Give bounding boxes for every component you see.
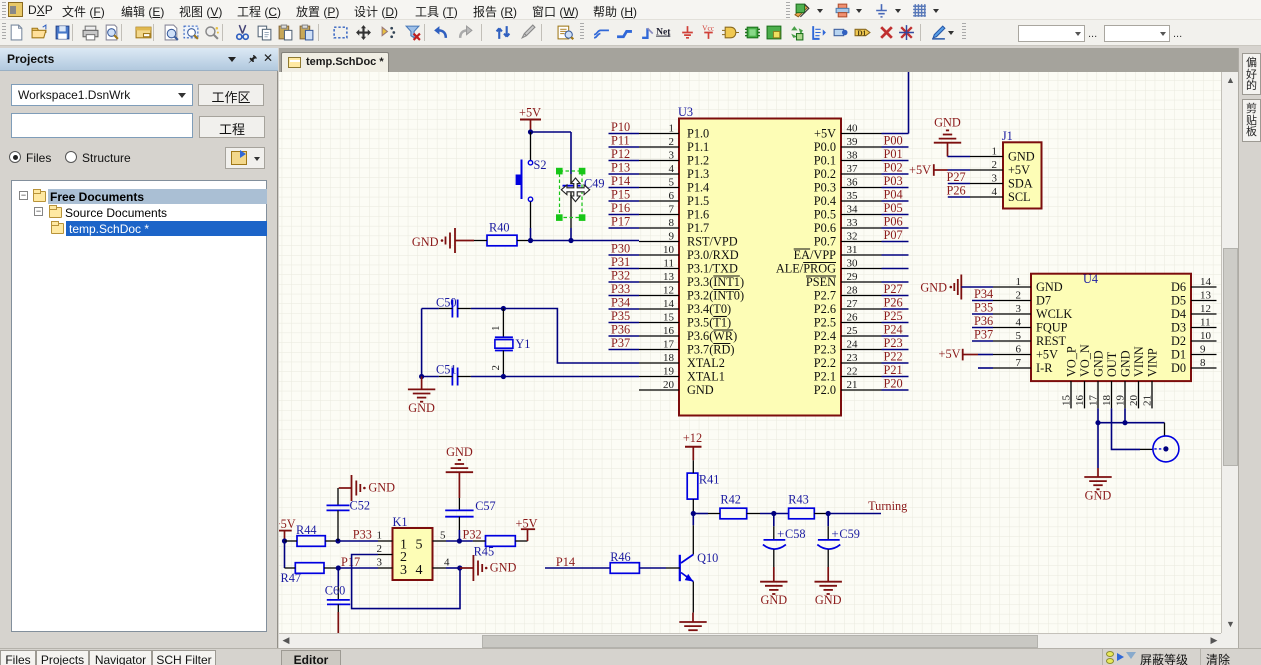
svg-text:P33: P33: [611, 282, 630, 296]
svg-text:2: 2: [669, 136, 675, 148]
resistor R41: [687, 460, 719, 513]
switch S2: [516, 132, 547, 228]
resistor R45: [473, 536, 528, 559]
svg-text:GND: GND: [1118, 350, 1132, 377]
wire: [882, 335, 909, 337]
IC U3 body: [678, 105, 841, 416]
svg-text:4: 4: [669, 163, 675, 175]
svg-text:Vcc: Vcc: [702, 24, 715, 32]
U4 pin 11 (D3): [1171, 317, 1217, 335]
svg-text:XTAL2: XTAL2: [687, 356, 725, 370]
svg-text:P3.3(INT1): P3.3(INT1): [687, 275, 744, 289]
junction: [501, 306, 506, 311]
svg-text:26: 26: [847, 312, 859, 324]
svg-text:P0.5: P0.5: [814, 208, 836, 222]
wire Turning net: [828, 513, 881, 515]
U4 pin 9 (D1): [1171, 344, 1217, 362]
wire K1 pin2 loop to pin4: [352, 555, 460, 609]
U3 pin 5 (left row 5): [639, 177, 709, 195]
wire U4 pin1: [961, 286, 993, 288]
svg-text:38: 38: [847, 150, 859, 162]
IC U4 body: [1031, 272, 1191, 381]
wire: [882, 295, 909, 297]
resistor R40: [474, 221, 531, 246]
ground GND (Q10 emitter): [679, 613, 706, 631]
power port +5V (U4 pin6): [939, 347, 978, 361]
wire: [882, 362, 909, 364]
svg-text:C50: C50: [436, 296, 457, 310]
svg-text:U4: U4: [1083, 272, 1098, 286]
svg-text:SDA: SDA: [1008, 177, 1033, 191]
svg-text:D7: D7: [1036, 294, 1051, 308]
ground GND (C59): [815, 567, 842, 607]
svg-text:P2.1: P2.1: [814, 370, 836, 384]
wire: [882, 389, 909, 391]
svg-text:P05: P05: [884, 201, 903, 215]
K1 pin 2: [377, 543, 393, 555]
svg-text:GND: GND: [446, 445, 473, 459]
U3 pin 20 (left row 20): [639, 379, 714, 397]
svg-text:3: 3: [669, 150, 675, 162]
U3 pin 29 (right): [806, 271, 882, 289]
svg-text:P2.0: P2.0: [814, 383, 836, 397]
svg-text:34: 34: [847, 204, 859, 216]
svg-text:5: 5: [669, 177, 675, 189]
svg-text:FQUP: FQUP: [1036, 321, 1068, 335]
svg-text:Turning: Turning: [868, 499, 907, 513]
svg-text:7: 7: [669, 204, 675, 216]
svg-text:EA/VPP: EA/VPP: [794, 248, 837, 262]
U3 pin 6 (left row 6): [639, 190, 709, 208]
wire: [882, 133, 909, 135]
svg-text:2: 2: [1016, 290, 1022, 302]
svg-text:P1.3: P1.3: [687, 167, 709, 181]
K1 pin 4: [433, 557, 451, 569]
svg-text:8: 8: [669, 217, 675, 229]
svg-text:P1.5: P1.5: [687, 194, 709, 208]
wire: [972, 313, 993, 315]
svg-text:15: 15: [663, 312, 675, 324]
svg-text:10: 10: [663, 244, 675, 256]
svg-text:P0.3: P0.3: [814, 181, 836, 195]
svg-text:P2.6: P2.6: [814, 302, 836, 316]
U3 pin 2 (left row 2): [639, 136, 709, 154]
svg-text:GND: GND: [368, 481, 395, 495]
svg-text:PSEN: PSEN: [806, 275, 836, 289]
svg-text:+5V: +5V: [1008, 163, 1030, 177]
svg-text:GND: GND: [1085, 489, 1112, 503]
U3 pin 24 (right): [814, 339, 882, 357]
U4 pin 16 (VO_N): [1074, 344, 1092, 408]
svg-text:20: 20: [663, 379, 675, 391]
svg-text:R41: R41: [699, 473, 720, 487]
svg-text:12: 12: [1200, 303, 1211, 315]
svg-text:6: 6: [1016, 344, 1022, 356]
svg-text:12: 12: [663, 285, 674, 297]
svg-text:P2.3: P2.3: [814, 343, 836, 357]
U4 pin 1 (GND): [993, 276, 1063, 294]
svg-text:39: 39: [847, 136, 859, 148]
U3 pin 39 (right): [814, 136, 882, 154]
svg-text:P14: P14: [556, 555, 575, 569]
svg-text:P34: P34: [611, 296, 630, 310]
svg-text:VINP: VINP: [1145, 348, 1159, 377]
U3 pin 34 (right): [814, 204, 882, 222]
U3 pin 19 (left row 19): [639, 366, 725, 384]
svg-text:28: 28: [847, 285, 859, 297]
svg-text:REST: REST: [1036, 334, 1067, 348]
svg-text:P0.1: P0.1: [814, 154, 836, 168]
svg-text:WCLK: WCLK: [1036, 307, 1072, 321]
resistor R44: [285, 523, 339, 546]
svg-text:P1.0: P1.0: [687, 127, 709, 141]
U4 pin 8 (D0): [1171, 357, 1217, 375]
ground GND (left of R40, bar style): [412, 228, 474, 253]
U4 pin 17 (GND): [1088, 350, 1106, 408]
wire J1 pin3: [948, 183, 970, 185]
wire U4 pin6: [978, 354, 993, 356]
U3 pin 36 (right): [814, 177, 882, 195]
svg-text:GND: GND: [1036, 280, 1063, 294]
svg-text:P1.4: P1.4: [687, 181, 709, 195]
U4 pin 14 (D6): [1171, 276, 1217, 294]
svg-text:VINN: VINN: [1132, 346, 1146, 377]
svg-text:18: 18: [663, 352, 675, 364]
wire net P13: [609, 173, 640, 175]
connector J1 body: [1002, 129, 1042, 209]
ground GND (crystal): [408, 377, 435, 415]
ground GND (K1 pin4, bar style): [460, 555, 517, 581]
wire net P10: [609, 133, 640, 135]
U3 pin 17 (left row 17): [639, 339, 734, 357]
U3 pin 35 (right): [814, 190, 882, 208]
wire: [882, 322, 909, 324]
svg-text:15: 15: [1061, 395, 1073, 407]
wire C49 to RST net: [570, 228, 572, 241]
svg-text:P35: P35: [611, 309, 630, 323]
svg-text:37: 37: [847, 163, 859, 175]
capacitor C59 (polarized): [817, 514, 860, 568]
svg-text:C59: C59: [839, 527, 860, 541]
svg-text:P35: P35: [974, 301, 993, 315]
U3 pin 3 (left row 3): [639, 150, 709, 168]
svg-text:P3.0/RXD: P3.0/RXD: [687, 248, 739, 262]
svg-text:22: 22: [847, 366, 858, 378]
svg-text:P20: P20: [884, 377, 903, 391]
svg-text:P02: P02: [884, 161, 903, 175]
crystal Y1: [490, 309, 531, 377]
svg-text:9: 9: [669, 231, 675, 243]
svg-text:P11: P11: [611, 134, 630, 148]
svg-text:GND: GND: [1008, 150, 1035, 164]
wire net P16: [609, 214, 640, 216]
wire: [882, 214, 909, 216]
svg-text:11: 11: [1200, 317, 1211, 329]
wire: [882, 146, 909, 148]
U3 pin 27 (right): [814, 298, 882, 316]
svg-text:P37: P37: [611, 336, 630, 350]
svg-text:P0.7: P0.7: [814, 235, 836, 249]
svg-text:P3.6(WR): P3.6(WR): [687, 329, 737, 343]
wire: [882, 254, 909, 256]
wire net P11: [609, 146, 640, 148]
svg-text:GND: GND: [934, 116, 961, 130]
svg-text:P2.5: P2.5: [814, 316, 836, 330]
wire net P34: [609, 308, 640, 310]
ground GND (above J1, flipped): [934, 116, 961, 157]
svg-text:OUT: OUT: [1105, 351, 1119, 377]
junction: [528, 238, 533, 243]
resistor R43: [788, 493, 828, 519]
J1 pin 1 (GND): [970, 146, 1035, 164]
U3 pin 9 (left row 9): [639, 231, 738, 249]
wire R42 row: [693, 513, 708, 515]
wire J1 pin1: [948, 156, 971, 158]
svg-text:C57: C57: [475, 499, 496, 513]
svg-text:9: 9: [1200, 344, 1206, 356]
svg-text:P07: P07: [884, 228, 903, 242]
U3 pin 8 (left row 8): [639, 217, 709, 235]
U3 pin 13 (left row 12): [639, 271, 744, 289]
svg-text:GND: GND: [412, 235, 439, 249]
U4 pin 20 (VINN): [1128, 346, 1146, 408]
wire: [882, 227, 909, 229]
wire net P32: [609, 281, 640, 283]
wire net P15: [609, 200, 640, 202]
svg-text:Q10: Q10: [697, 551, 718, 565]
svg-text:P27: P27: [947, 170, 966, 184]
svg-text:P2.7: P2.7: [814, 289, 836, 303]
U4 pin 15 (VO_P): [1061, 346, 1079, 408]
svg-text:D4: D4: [1171, 307, 1186, 321]
svg-text:P1.1: P1.1: [687, 140, 709, 154]
svg-text:33: 33: [847, 217, 859, 229]
svg-text:D2: D2: [1171, 334, 1186, 348]
U3 pin 7 (left row 7): [639, 204, 709, 222]
svg-text:21: 21: [847, 379, 858, 391]
wire: [882, 241, 909, 243]
K1 pin 1: [377, 530, 393, 542]
svg-text:GND: GND: [490, 561, 517, 575]
svg-text:VO_N: VO_N: [1078, 344, 1092, 377]
svg-text:P0.4: P0.4: [814, 194, 836, 208]
svg-text:6: 6: [669, 190, 675, 202]
svg-text:GND: GND: [687, 383, 714, 397]
svg-text:18: 18: [1101, 395, 1113, 407]
svg-text:1: 1: [1016, 276, 1022, 288]
svg-text:U3: U3: [678, 105, 693, 119]
wire: [882, 268, 909, 270]
capacitor C57: [445, 498, 496, 530]
U3 pin 22 (right): [814, 366, 882, 384]
svg-text:25: 25: [847, 325, 859, 337]
svg-text:P25: P25: [884, 309, 903, 323]
svg-text:P26: P26: [884, 296, 903, 310]
junction: [419, 374, 424, 379]
wire collector node: [692, 514, 694, 526]
svg-text:1: 1: [669, 123, 675, 135]
svg-text:P37: P37: [974, 328, 993, 342]
svg-text:P22: P22: [884, 350, 903, 364]
svg-text:20: 20: [1128, 395, 1140, 407]
capacitor C51: [436, 363, 471, 386]
C49 selection handles: [556, 168, 585, 221]
svg-text:D6: D6: [1171, 280, 1186, 294]
wire net P33: [609, 295, 640, 297]
svg-text:32: 32: [847, 231, 858, 243]
svg-text:19: 19: [663, 366, 675, 378]
svg-text:5: 5: [416, 537, 423, 552]
U3 pin 21 (right): [814, 379, 882, 397]
wire J1 pin4: [948, 196, 970, 198]
svg-text:35: 35: [847, 190, 859, 202]
svg-text:P04: P04: [884, 188, 903, 202]
U3 pin 11 (left row 11): [639, 258, 738, 276]
junction: [335, 538, 340, 543]
svg-text:P23: P23: [884, 336, 903, 350]
svg-text:R40: R40: [489, 221, 510, 235]
wire +5V node to C49 branch: [531, 131, 572, 133]
ground GND (C58): [760, 567, 787, 607]
wire C51/Y1 to XTAL1: [422, 376, 439, 378]
wire net P30: [609, 254, 640, 256]
svg-text:P1.6: P1.6: [687, 208, 709, 222]
svg-text:GND: GND: [408, 401, 435, 415]
junction: [1095, 420, 1100, 425]
svg-text:P33: P33: [353, 528, 372, 542]
U3 pin 26 (right): [814, 312, 882, 330]
U4 pin 12 (D4): [1171, 303, 1217, 321]
svg-text:P1.2: P1.2: [687, 154, 709, 168]
svg-text:3: 3: [992, 173, 998, 185]
resistor R42: [708, 493, 760, 519]
svg-text:14: 14: [663, 298, 675, 310]
junction: [826, 511, 831, 516]
svg-text:P14: P14: [611, 174, 630, 188]
J1 pin 3 (SDA): [970, 173, 1033, 191]
svg-text:P15: P15: [611, 188, 630, 202]
svg-text:36: 36: [847, 177, 859, 189]
svg-text:P10: P10: [611, 120, 630, 134]
svg-text:3: 3: [400, 563, 407, 578]
power port +5V (R45): [516, 516, 538, 541]
U3 pin 28 (right): [814, 285, 882, 303]
power port +5V (left edge): [274, 517, 296, 541]
svg-text:2: 2: [992, 159, 998, 171]
svg-text:17: 17: [1088, 395, 1100, 407]
transistor Q10: [666, 525, 718, 612]
U4 pin 7 (I-R): [993, 357, 1053, 375]
U3 pin 10 (left row 10): [639, 244, 739, 262]
svg-text:SCL: SCL: [1008, 190, 1031, 204]
capacitor C50: [436, 296, 471, 318]
wire: [882, 376, 909, 378]
wire net P31: [609, 268, 640, 270]
svg-text:1: 1: [490, 326, 502, 332]
svg-text:GND: GND: [815, 593, 842, 607]
J1 pin 4 (SCL): [970, 186, 1031, 204]
svg-text:P27: P27: [884, 282, 903, 296]
svg-text:C60: C60: [325, 584, 346, 598]
U3 pin 12 (left row 13): [639, 285, 744, 303]
wire P17 (R47 to K1 pin3): [338, 567, 378, 569]
svg-text:D1: D1: [857, 29, 866, 38]
svg-text:24: 24: [847, 339, 859, 351]
speaker/jack symbol: [1153, 436, 1179, 462]
wire down to C49: [570, 132, 572, 174]
wire: [882, 308, 909, 310]
U3 pin 30 (right): [776, 258, 882, 276]
svg-text:P3.5(T1): P3.5(T1): [687, 316, 731, 330]
svg-text:5: 5: [1016, 330, 1022, 342]
wire C57 to pin5 net: [458, 530, 460, 541]
svg-text:P21: P21: [884, 363, 903, 377]
svg-text:P0.2: P0.2: [814, 167, 836, 181]
junction: [771, 511, 776, 516]
wire P14: [545, 567, 610, 569]
svg-text:P3.2(INT0): P3.2(INT0): [687, 289, 744, 303]
wire: [882, 281, 909, 283]
U3 pin 31 (right): [794, 244, 882, 262]
U4 pin 3 (WCLK): [993, 303, 1072, 321]
svg-text:P2.4: P2.4: [814, 329, 836, 343]
svg-text:+12: +12: [683, 431, 702, 445]
U3 pin 16 (left row 16): [639, 325, 737, 343]
wire K1 pin5 net: [446, 540, 473, 542]
svg-text:P32: P32: [463, 528, 482, 542]
U3 pin 32 (right): [814, 231, 882, 249]
K1 pin 3: [377, 557, 393, 569]
wire net P37: [609, 349, 640, 351]
ground GND (C52, bar style): [339, 475, 395, 501]
U3 pin 18 (left row 18): [639, 352, 725, 370]
svg-text:11: 11: [663, 258, 674, 270]
svg-text:3: 3: [1016, 303, 1022, 315]
U4 pin 5 (REST): [993, 330, 1067, 348]
U4 pin 13 (D5): [1171, 290, 1217, 308]
svg-text:P17: P17: [611, 215, 630, 229]
U4 pin 10 (D2): [1171, 330, 1217, 348]
svg-text:13: 13: [663, 271, 675, 283]
svg-text:10: 10: [1200, 330, 1212, 342]
svg-text:3: 3: [377, 557, 383, 569]
svg-text:P17: P17: [341, 555, 360, 569]
U3 pin 14 (left row 14): [639, 298, 731, 316]
ground GND (above C57, flipped): [446, 445, 473, 498]
svg-text:5: 5: [440, 530, 446, 542]
U4 pin 21 (VINP): [1142, 348, 1160, 408]
wire C60 to GND (clipped below): [337, 612, 339, 633]
svg-text:7: 7: [1016, 357, 1022, 369]
svg-text:1: 1: [992, 146, 998, 158]
svg-text:I-R: I-R: [1036, 361, 1053, 375]
svg-text:C52: C52: [350, 499, 371, 513]
svg-text:ALE/PROG: ALE/PROG: [776, 262, 836, 276]
wire: [882, 187, 909, 189]
svg-text:31: 31: [847, 244, 858, 256]
svg-text:P36: P36: [611, 323, 630, 337]
svg-text:2: 2: [490, 365, 502, 371]
junction: [336, 565, 341, 570]
wire U4 pin7: [978, 367, 993, 369]
sheet background grid: [279, 72, 1221, 633]
svg-text:J1: J1: [1002, 129, 1013, 143]
svg-text:8: 8: [1200, 357, 1206, 369]
svg-text:4: 4: [416, 563, 423, 578]
svg-text:C58: C58: [785, 527, 806, 541]
wire J1 pin2: [948, 169, 971, 171]
wire RST net (R40 to U3 pin 9): [531, 240, 640, 242]
